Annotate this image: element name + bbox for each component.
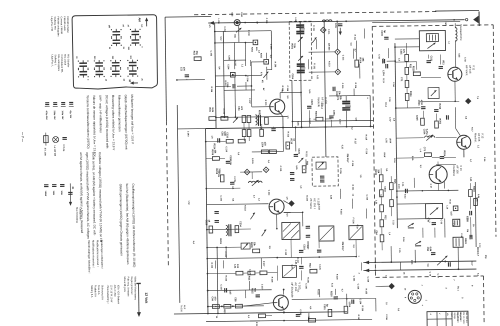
wires resistor column2 <box>380 168 382 174</box>
capacitor C65 <box>434 109 438 111</box>
svg-text:0,1µ: 0,1µ <box>293 43 295 48</box>
FM IF output filter <box>453 237 463 247</box>
DIN connector <box>408 290 421 303</box>
capacitor on y193 <box>404 189 406 193</box>
capacitor C230 <box>256 294 260 296</box>
svg-text:Läge/Pos: L: Läge/Pos: L <box>51 55 53 68</box>
svg-text:100W: 100W <box>44 191 46 196</box>
svg-text:R216: R216 <box>290 138 292 144</box>
svg-text:HF-Vorst.: HF-Vorst. <box>465 65 469 76</box>
rail y128 <box>206 126 374 128</box>
center extra parts 2 <box>212 157 219 161</box>
switch arrow <box>312 37 317 42</box>
svg-text:C226: C226 <box>310 99 312 105</box>
svg-text:C221: C221 <box>400 49 402 55</box>
AM IF parts above rail <box>260 129 264 136</box>
wires resistor column <box>405 43 407 54</box>
svg-text:R15: R15 <box>208 108 210 113</box>
IF transformer block dashed box <box>289 21 312 80</box>
svg-text:C204: C204 <box>423 129 426 135</box>
svg-text:C 222: C 222 <box>224 251 226 257</box>
IF rail y264 with arrow <box>363 261 476 262</box>
svg-text:/ Max belastning !: / Max belastning ! <box>106 285 109 304</box>
shield corner top left solid <box>165 15 211 18</box>
svg-text:m: m <box>446 313 448 315</box>
svg-text:L 200: L 200 <box>217 18 219 24</box>
bus wire x326 <box>324 22 326 157</box>
resistor right <box>453 206 458 211</box>
wire y247 <box>207 246 241 248</box>
notes paragraph C aenderungen <box>87 240 103 274</box>
svg-text:C 206: C 206 <box>269 44 271 50</box>
svg-text:C231: C231 <box>323 304 325 310</box>
IF rail y272 with arrow <box>363 269 476 270</box>
switch S1c <box>131 30 139 32</box>
svg-text:R12: R12 <box>193 51 195 56</box>
wire y306 <box>208 305 264 308</box>
svg-text:15W: 15W <box>52 191 54 195</box>
svg-text:FM 10,7: FM 10,7 <box>476 247 479 256</box>
svg-text:Stellung: FM: Stellung: FM <box>53 17 56 30</box>
variable arrow <box>233 118 238 123</box>
svg-text:R15: R15 <box>223 309 225 314</box>
svg-text:47µ 15V: 47µ 15V <box>69 110 72 118</box>
svg-text:V 12: V 12 <box>481 133 485 139</box>
svg-text:R 238: R 238 <box>255 322 257 326</box>
svg-text:Kl 0,1µ: Kl 0,1µ <box>62 144 64 152</box>
coil L201 <box>255 115 257 125</box>
rail y122 <box>292 120 373 121</box>
resistor R21 <box>389 183 393 190</box>
svg-text:FM/AM-Schalter: FM/AM-Schalter <box>66 16 69 33</box>
svg-text:R 233: R 233 <box>365 288 367 294</box>
resistor R221 <box>238 139 245 143</box>
svg-text:C233: C233 <box>417 100 419 106</box>
battery arrow 12 Volt <box>138 283 140 312</box>
svg-text:Röhrenvoltmeter gemessen: Röhrenvoltmeter gemessen <box>117 95 121 132</box>
svg-text:R216: R216 <box>412 66 414 72</box>
capacitor C216 <box>290 172 294 174</box>
svg-text:C58: C58 <box>426 247 428 252</box>
shield boundary FM divider dashed <box>372 26 375 277</box>
capacitor C74 <box>469 211 471 215</box>
svg-text:L204: L204 <box>348 302 351 308</box>
svg-text:R11: R11 <box>442 60 444 65</box>
svg-text:FM/AM switch: FM/AM switch <box>63 16 66 31</box>
coil L203 <box>226 225 228 235</box>
wires <box>390 176 392 182</box>
wire y204 <box>207 203 269 206</box>
notes paragraph B2 german <box>119 184 137 268</box>
svg-text:Valeurs de mesure rapportées à: Valeurs de mesure rapportées à UBatt = 1… <box>92 95 97 156</box>
svg-text:R 224: R 224 <box>305 195 308 201</box>
svg-text:R 203: R 203 <box>247 30 249 36</box>
svg-text:C58: C58 <box>234 297 236 302</box>
svg-text:C 238: C 238 <box>299 309 301 315</box>
capacitor C224 <box>317 249 321 251</box>
loudspeaker caps lines <box>44 184 48 186</box>
lamp symbol line <box>53 137 59 143</box>
main bus upper x216 <box>215 23 216 128</box>
junctions <box>276 228 278 230</box>
wire y300 <box>292 298 376 299</box>
bus wire x302 <box>300 22 301 127</box>
wire stubs top <box>233 42 235 69</box>
wire <box>397 203 425 205</box>
svg-text:C 226: C 226 <box>318 264 320 270</box>
bottom rail y313 <box>174 312 347 314</box>
svg-text:UHF- resp. HF-millivoltmeter: UHF- resp. HF-millivoltmeter <box>98 95 102 133</box>
wires <box>207 272 235 274</box>
resistor R215 <box>209 117 216 121</box>
svg-text:C233: C233 <box>226 132 228 138</box>
transistor V203 <box>273 295 288 310</box>
test point diamond <box>335 69 341 75</box>
wire <box>419 100 459 103</box>
svg-text:R 237: R 237 <box>357 315 359 321</box>
switch box caption M/L <box>51 54 70 73</box>
switch S2a <box>79 62 87 64</box>
svg-text:R216: R216 <box>330 291 332 297</box>
variable arrow <box>298 158 303 163</box>
resistor R235 <box>344 306 348 313</box>
svg-text:C64: C64 <box>237 106 240 111</box>
switch S1b <box>113 39 121 41</box>
capacitor C215 <box>294 153 298 155</box>
svg-text:Teleskopantenne: Teleskopantenne <box>459 24 462 41</box>
resistor R13 <box>405 80 409 87</box>
svg-text:M/L switch: M/L switch <box>63 54 66 66</box>
svg-text:R12: R12 <box>308 263 310 268</box>
svg-text:Fi 201: Fi 201 <box>312 25 314 32</box>
svg-text:R 225: R 225 <box>340 209 342 215</box>
svg-text:Commutateur M/L: Commutateur M/L <box>60 54 63 73</box>
svg-text:R218: R218 <box>438 104 440 110</box>
rail y117 <box>216 116 287 119</box>
svg-text:UKW: UKW <box>389 138 391 143</box>
fuse symbol line <box>44 136 49 143</box>
svg-text:R224: R224 <box>443 150 446 156</box>
svg-text:C 236: C 236 <box>385 314 387 320</box>
svg-text:FM 10,7: FM 10,7 <box>346 154 349 163</box>
svg-text:C 211: C 211 <box>327 29 329 35</box>
switch across rails <box>437 256 448 266</box>
svg-text:C 213: C 213 <box>222 108 224 114</box>
capacitor C66 <box>445 115 447 119</box>
resistor R233 <box>235 304 242 308</box>
svg-text:R 221: R 221 <box>305 151 307 157</box>
resistor R202 on y42 <box>253 40 258 45</box>
resistor pair R213 R214 <box>242 130 246 137</box>
notes paragraph ratings <box>106 285 120 305</box>
switch S3b <box>95 70 103 72</box>
resistor column left <box>379 175 383 182</box>
resistor R15 <box>421 118 425 125</box>
capacitor C221 <box>214 211 218 213</box>
shield boundary left dashed <box>166 121 168 266</box>
switch diode below trimmer <box>236 28 241 33</box>
shield boundary bottom right dashed <box>376 276 484 277</box>
svg-text:C226: C226 <box>205 220 207 226</box>
svg-text:AM: AM <box>138 17 142 22</box>
test point diamond <box>389 284 394 289</box>
wires <box>336 21 338 48</box>
svg-text:R 221: R 221 <box>351 185 353 191</box>
svg-text:injust.: injust. <box>450 312 453 318</box>
wire <box>376 285 389 287</box>
FM tuner input box <box>419 30 445 50</box>
svg-text:R 236: R 236 <box>361 306 363 312</box>
notes paragraph A2 german <box>117 95 135 150</box>
svg-text:R 205: R 205 <box>234 60 236 66</box>
trimmer box <box>428 88 439 99</box>
svg-text:C204: C204 <box>291 73 294 79</box>
wire x293 <box>291 80 294 127</box>
switch detail box <box>72 15 157 90</box>
svg-text:4Ω: 4Ω <box>71 186 74 189</box>
svg-text:R218: R218 <box>215 168 217 174</box>
svg-text:C210: C210 <box>383 186 385 192</box>
wire <box>276 215 278 229</box>
wire <box>395 38 419 40</box>
switch S3a <box>95 62 103 64</box>
svg-text:2: 2 <box>421 285 423 286</box>
svg-text:AC 151 r: AC 151 r <box>313 198 317 209</box>
capacitor C51 <box>384 36 388 38</box>
svg-text:C71: C71 <box>400 77 402 82</box>
svg-text:250µ 15V: 250µ 15V <box>53 111 55 121</box>
wire <box>469 183 471 189</box>
svg-text:10W: 10W <box>60 190 62 194</box>
svg-text:FM 98 MHz: FM 98 MHz <box>456 312 458 322</box>
svg-text:R 214: R 214 <box>354 83 357 89</box>
resistor R201a <box>194 57 201 61</box>
svg-text:C 218: C 218 <box>351 161 353 167</box>
svg-text:R 213: R 213 <box>287 131 289 137</box>
capacitor C211 <box>217 138 219 142</box>
svg-text:C71: C71 <box>423 147 425 152</box>
svg-text:V 13: V 13 <box>459 165 463 171</box>
switch S5b <box>129 70 137 72</box>
svg-text:La 12V 2W: La 12V 2W <box>53 146 55 156</box>
capacitor C71 <box>431 252 435 254</box>
resistor R217 <box>265 117 269 124</box>
svg-text:R 209: R 209 <box>281 86 283 92</box>
svg-text:C 227: C 227 <box>261 284 263 290</box>
svg-text:R218: R218 <box>472 186 474 192</box>
svg-text:Si 1 10A: Si 1 10A <box>44 148 47 157</box>
wire <box>244 43 246 66</box>
svg-text:battery: battery <box>134 293 137 300</box>
svg-text:C206: C206 <box>334 23 336 29</box>
svg-text:C 232: C 232 <box>352 276 354 282</box>
svg-text:C 212: C 212 <box>342 55 344 61</box>
shield boundary right dashed <box>493 25 496 237</box>
svg-text:C201: C201 <box>240 12 242 18</box>
switch S5a <box>129 61 137 63</box>
svg-text:C 220: C 220 <box>219 195 221 201</box>
svg-text:R15: R15 <box>393 179 395 184</box>
svg-text:C 220: C 220 <box>365 194 367 200</box>
small parts left of V202 <box>220 175 224 182</box>
svg-text:R 207: R 207 <box>224 80 226 86</box>
electrolytic cap symbol column <box>45 102 49 104</box>
wire grid texture <box>222 31 224 42</box>
svg-text:AF 106: AF 106 <box>456 165 460 174</box>
svg-text:Modifications reserved !: Modifications reserved ! <box>96 240 99 267</box>
svg-text:C58: C58 <box>221 131 223 136</box>
resistor R16 <box>435 121 439 128</box>
trimmer capacitor C201 on rail <box>234 20 240 26</box>
wire <box>283 200 288 203</box>
svg-text:R 217: R 217 <box>354 139 356 145</box>
switch arrow <box>262 230 267 237</box>
svg-text:100µ 15V: 100µ 15V <box>61 110 63 120</box>
switch arrow <box>250 213 255 220</box>
wire <box>454 107 456 128</box>
capacitor pair <box>306 225 310 227</box>
svg-text:R 229: R 229 <box>270 277 272 283</box>
wire y290 <box>208 289 272 292</box>
svg-text:C 218: C 218 <box>225 146 227 152</box>
switch S2b <box>79 71 87 73</box>
IF filter in box <box>316 162 326 169</box>
svg-text:Modifications réservées !: Modifications réservées ! <box>91 240 94 268</box>
svg-text:C221: C221 <box>430 56 432 62</box>
svg-text:C 234: C 234 <box>359 299 362 305</box>
svg-text:Fi 206: Fi 206 <box>352 218 354 225</box>
svg-text:FM 10,7: FM 10,7 <box>341 242 344 251</box>
svg-text:AM 460 kHz: AM 460 kHz <box>465 312 468 323</box>
svg-text:V 201: V 201 <box>324 97 328 105</box>
capacitor C205 <box>232 84 234 88</box>
trimmer <box>241 243 250 249</box>
wire antenna to tuner <box>454 23 456 28</box>
switch S1d <box>132 39 140 41</box>
svg-text:Minus till gods: Minus till gods <box>123 277 126 293</box>
svg-text:TA 300: TA 300 <box>180 305 183 313</box>
antenna rail wire <box>208 20 464 23</box>
switch S4b <box>112 70 120 72</box>
FM shield top dashed <box>372 25 493 27</box>
test point diamond <box>466 99 471 104</box>
resistor R218 <box>286 142 290 149</box>
svg-text:R 239: R 239 <box>307 313 309 319</box>
diode 2 <box>415 241 421 245</box>
svg-text:M/L-Schalter: M/L-Schalter <box>67 54 70 67</box>
FM IF filter Fi205 <box>319 226 334 241</box>
svg-text:R12: R12 <box>247 276 249 281</box>
svg-text:C 203: C 203 <box>210 50 212 56</box>
svg-text:M/L-omkopplare: M/L-omkopplare <box>57 54 60 71</box>
main bus lower x206 <box>206 129 208 314</box>
svg-text:Fi 206: Fi 206 <box>339 168 341 175</box>
svg-text:12 Volt: 12 Volt <box>144 292 148 304</box>
bottom rail y321 <box>206 319 372 321</box>
svg-text:Gleich-/Wechselspannungen (197: Gleich-/Wechselspannungen (1970Ω) mit <box>124 95 129 150</box>
svg-text:C 237: C 237 <box>220 284 222 290</box>
svg-text:C 208: C 208 <box>246 76 248 82</box>
transistor V11 <box>448 67 462 81</box>
bus wire x396 <box>395 43 397 228</box>
svg-text:Tensions continues/alternative: Tensions continues/alternatives (1970Ω) <box>86 95 91 149</box>
bottom strip extra parts <box>224 288 226 292</box>
resistor R234 <box>328 309 332 316</box>
wire stubs <box>224 59 246 61</box>
IF transformer Fi202 <box>297 63 305 65</box>
FM IF dashed box <box>312 157 338 186</box>
rail coil L205 <box>322 20 332 22</box>
wire y172 <box>240 171 262 173</box>
svg-text:C226: C226 <box>415 115 417 121</box>
V203 designation <box>290 282 302 298</box>
transistor V12 <box>457 135 471 149</box>
legend table <box>427 311 468 326</box>
svg-text:NF-Endstufe: NF-Endstufe <box>290 282 294 298</box>
svg-text:R 228: R 228 <box>224 275 226 281</box>
resistor R25 <box>469 190 473 197</box>
svg-text:30p: 30p <box>195 51 197 56</box>
more bottom parts <box>299 265 303 267</box>
V201 base wire <box>252 106 270 108</box>
junction dots on IF rails <box>390 261 392 263</box>
svg-text:Fi 202: Fi 202 <box>313 63 315 70</box>
svg-text:FM: FM <box>466 229 468 232</box>
svg-text:R208: R208 <box>374 169 376 175</box>
transistor V13 <box>429 165 447 183</box>
svg-text:C 202: C 202 <box>223 26 225 32</box>
diode <box>408 223 414 227</box>
svg-text:V 11: V 11 <box>472 65 476 71</box>
svg-text:Läge/Pos: FM: Läge/Pos: FM <box>50 17 52 31</box>
resistor R14 <box>405 93 409 100</box>
svg-text:R201: R201 <box>314 111 316 117</box>
junction dots on rail <box>282 127 284 129</box>
svg-text:R201: R201 <box>290 43 292 49</box>
svg-text:R 231: R 231 <box>317 289 319 295</box>
svg-text:C 223: C 223 <box>318 204 320 210</box>
notes paragraph A1 english <box>98 95 116 151</box>
svg-text:R224: R224 <box>409 91 412 97</box>
wire y31 <box>215 30 271 33</box>
svg-text:C 207: C 207 <box>248 98 250 104</box>
resistor pair R211 R212 <box>242 116 246 123</box>
svg-text:C64: C64 <box>211 296 214 301</box>
svg-text:C 225: C 225 <box>248 269 250 275</box>
wire y193 <box>397 189 458 192</box>
svg-text:R222: R222 <box>464 238 466 244</box>
svg-text:Meßwerte bezogen auf UBatt = 1: Meßwerte bezogen auf UBatt = 13,8 V <box>130 95 135 144</box>
svg-text:L204: L204 <box>382 70 385 76</box>
svg-text:FM/AM-omkopplare: FM/AM-omkopplare <box>56 16 59 37</box>
wire y141 <box>206 140 226 142</box>
svg-text:Commut. FM/AM: Commut. FM/AM <box>60 16 63 33</box>
tone symbol line <box>62 136 66 138</box>
svg-text:C 219: C 219 <box>233 176 235 182</box>
svg-text:6,8k: 6,8k <box>223 131 225 136</box>
test point diamond <box>320 27 326 33</box>
capacitor C207 <box>332 87 334 91</box>
svg-text:r: r <box>438 314 440 315</box>
V201 emitter wire <box>280 114 283 117</box>
resistor R12 <box>405 67 409 74</box>
resistor R231 <box>212 305 219 309</box>
svg-text:6,8k: 6,8k <box>429 247 431 252</box>
notes wirkt am motor <box>123 276 137 297</box>
svg-text:R 210: R 210 <box>328 61 330 67</box>
svg-text:C210: C210 <box>303 244 305 250</box>
svg-text:C64: C64 <box>375 230 378 235</box>
